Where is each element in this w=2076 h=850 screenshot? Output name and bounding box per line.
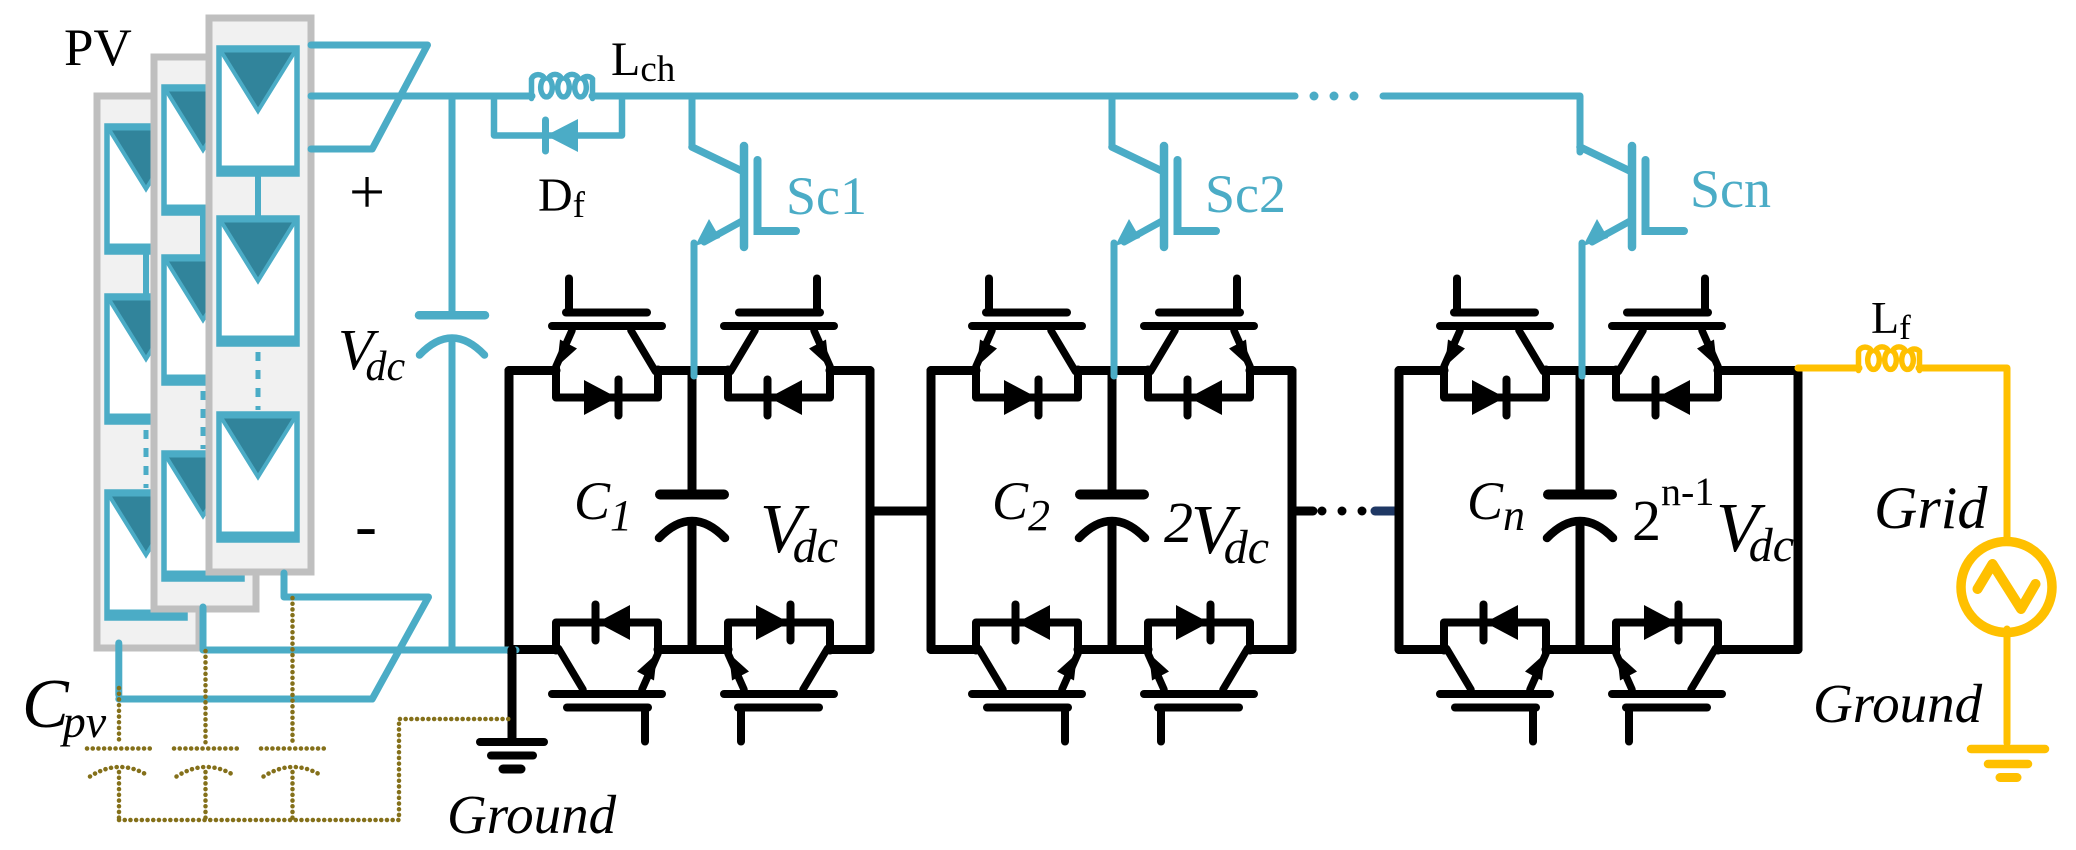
svg-text:Scn: Scn [1690,159,1771,219]
transistor S12 (top-right IGBT) [724,279,834,416]
wire top bus right segment [1383,96,1580,152]
svg-text:PV: PV [64,19,132,77]
wire link bridge2-dots [1292,507,1313,516]
transistor Sn2 (top-right IGBT) [1612,279,1722,416]
svg-text:+: + [349,156,385,227]
wire converter ground drop [508,650,517,738]
wire top DC bus [311,93,1295,100]
wire bridge1 right rail [866,371,875,650]
node dots on top bus [1310,92,1319,101]
svg-text:-: - [355,489,377,562]
capacitor C1 [688,371,697,491]
svg-text:Sc1: Sc1 [786,166,867,226]
wire bridge2 bottom links [931,645,1292,654]
PV string 2 (middle) [154,57,256,609]
wire bridge1 top links [509,366,870,375]
capacitor C_pv parasitic network (dashed) [87,598,512,820]
wire junction PV negative to bridge ground [502,647,516,654]
transistor Sn1 (top-left IGBT) [1440,279,1550,416]
switch Scn [1580,98,1684,376]
svg-text:Df: Df [538,169,586,226]
wire grid to ground [2004,629,2011,743]
svg-text:Vdc: Vdc [760,491,838,573]
svg-text:Cpv: Cpv [22,666,107,747]
wire grid feeder [1798,365,1859,372]
svg-text:Ground: Ground [447,784,617,845]
wire bridge3 bottom links [1399,645,1798,654]
inductor L_f [1859,347,1920,371]
transistor Sn4 (bottom-right IGBT) [1612,605,1722,742]
svg-text:2n-1: 2n-1 [1632,469,1714,553]
transistor S21 (top-left IGBT) [972,279,1082,416]
inductor L_ch [532,74,593,98]
PV string 3 (back) [97,96,199,648]
transistor S11 (top-left IGBT) [552,279,662,416]
switch Sc1 [692,98,796,376]
ground (grid) [1971,749,2045,778]
svg-text:Vdc: Vdc [1716,490,1794,572]
capacitor Cpv-a plates [87,746,151,751]
PV string 1 (front) [209,18,311,572]
wire link bridge1-bridge2 [870,507,931,516]
capacitor Cpv-b stem [203,651,208,744]
transistor Sn3 (bottom-left IGBT) [1440,605,1550,742]
capacitor C2 [1108,371,1117,491]
transistor S23 (bottom-left IGBT) [972,605,1082,742]
wire PV negative bus to converter ground [203,607,515,650]
ground (converter) [480,742,544,769]
svg-text:Cn: Cn [1467,471,1525,540]
wire back string negative stub [115,643,122,695]
switch Sc2 [1112,98,1216,376]
svg-text:Ground: Ground [1813,673,1983,734]
transistor S13 (bottom-left IGBT) [552,605,662,742]
transistor S14 (bottom-right IGBT) [724,605,834,742]
wire bridge2 left rail [927,371,936,650]
svg-text:C2: C2 [992,471,1050,540]
svg-text:Lch: Lch [611,33,676,90]
source Grid (AC) [1961,542,2052,633]
capacitor Cpv-b plates [174,746,238,751]
wire bridge1 left rail [505,371,514,650]
wire dashed ground bus [119,719,512,820]
capacitor Cpv-a stem [117,688,122,744]
capacitor Cn [1576,371,1585,491]
capacitor Cpv-c plates [261,746,325,751]
wire bridge2 top links [931,366,1292,375]
svg-text:Vdc: Vdc [338,317,405,390]
svg-text:2Vdc: 2Vdc [1164,490,1269,574]
capacitor Cpv-c stem [290,598,295,744]
diode D_f freewheel branch [494,99,622,136]
wire PV positive collector (top parallelogram) [311,45,428,149]
svg-text:Sc2: Sc2 [1205,164,1286,224]
wire navy link to bridge3 [1375,507,1399,516]
wire PV negative collector (bottom parallelogram) [119,573,429,699]
wire bridge2 right rail [1288,371,1297,650]
transistor S22 (top-right IGBT) [1144,279,1254,416]
svg-text:Grid: Grid [1874,475,1988,541]
wire bridge1 bottom links [509,645,870,654]
svg-text:Lf: Lf [1871,292,1911,347]
wire bridge3 right rail [1794,371,1803,650]
wire bridge3 top links [1399,366,1798,375]
wire bridge3 left rail [1395,371,1404,650]
svg-text:C1: C1 [574,471,632,540]
capacitor V_dc branch [449,96,456,311]
transistor S24 (bottom-right IGBT) [1144,605,1254,742]
node dots between bridge2 and bridge3 [1318,507,1327,516]
wire L_f to grid [1919,368,2007,541]
